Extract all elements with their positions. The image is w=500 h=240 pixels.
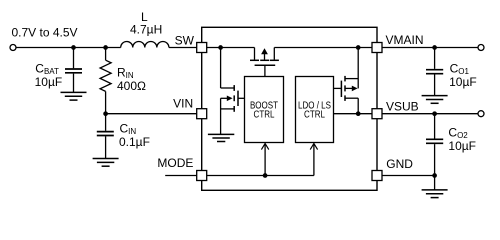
capacitor CO2 — [426, 139, 443, 143]
wire MODE stub — [165, 175, 197, 177]
pin VSUB — [372, 109, 382, 119]
svg-text:0.7V to 4.5V: 0.7V to 4.5V — [12, 26, 78, 40]
pin SW — [197, 43, 207, 53]
ground (GND/CO2) — [422, 190, 448, 198]
wire inductor to SW pin — [169, 47, 197, 49]
node VIN/CIN junction — [103, 111, 108, 116]
node R_IN top junction — [103, 45, 108, 50]
node M2 drain junction — [218, 45, 223, 50]
svg-text:CTRL: CTRL — [304, 109, 325, 120]
transistor M1 (rectifier, horizontal) — [250, 48, 279, 77]
svg-text:VMAIN: VMAIN — [386, 33, 424, 47]
ground (CBAT) — [61, 92, 87, 100]
wire VSUB to output — [382, 113, 478, 115]
svg-text:10µF: 10µF — [449, 75, 477, 89]
ground (CIN) — [93, 159, 119, 167]
svg-text:10µF: 10µF — [35, 75, 63, 89]
wire CO2 to GND row — [434, 144, 436, 190]
wire to CO2 — [434, 114, 436, 139]
ground (CO1) — [422, 96, 448, 104]
svg-text:4.7µH: 4.7µH — [130, 22, 162, 36]
svg-text:SW: SW — [175, 33, 195, 47]
pin GND — [372, 171, 382, 181]
node M3 drain junction — [356, 45, 361, 50]
node MODE junction — [263, 173, 268, 178]
svg-text:VIN: VIN — [173, 97, 193, 111]
wire to CO1 — [434, 48, 436, 69]
wire to CIN — [105, 114, 107, 131]
svg-text:RIN: RIN — [117, 65, 134, 80]
node M3 source junction — [356, 111, 361, 116]
wire CBAT to ground — [73, 74, 75, 93]
node C_BAT junction — [71, 45, 76, 50]
wire GND pin to ground — [382, 175, 435, 177]
wire arrow to BOOST — [264, 144, 266, 176]
svg-text:10µF: 10µF — [448, 139, 476, 153]
wire arrow to LDO — [313, 144, 315, 176]
wire LDO to VSUB — [334, 113, 373, 115]
inductor L1 — [121, 41, 169, 47]
wire VMAIN to output — [382, 47, 478, 49]
svg-text:CTRL: CTRL — [254, 109, 275, 120]
capacitor CO1 — [426, 70, 443, 74]
wire to C_BAT — [73, 48, 75, 69]
terminal VSUB — [478, 111, 484, 117]
wire to resistor — [105, 48, 107, 61]
svg-text:CIN: CIN — [120, 121, 137, 136]
svg-text:CO2: CO2 — [448, 125, 468, 140]
node GND junction — [432, 173, 437, 178]
wire input to inductor — [16, 47, 121, 49]
svg-text:CBAT: CBAT — [35, 62, 59, 77]
block BOOST CTRL — [245, 77, 284, 143]
svg-text:0.1µF: 0.1µF — [119, 135, 150, 149]
wire MODE to ctrl blocks — [207, 175, 314, 177]
wire CO1 to ground — [434, 75, 436, 96]
pin VIN — [197, 109, 207, 119]
svg-text:CO1: CO1 — [450, 61, 470, 76]
block LDO/LS CTRL — [296, 77, 334, 143]
pin MODE — [197, 171, 207, 181]
wire VIN row — [106, 113, 197, 115]
svg-text:400Ω: 400Ω — [117, 79, 146, 93]
node CO2 junction — [432, 111, 437, 116]
transistor M2 (low-side NMOS) — [221, 48, 245, 135]
svg-text:MODE: MODE — [157, 156, 193, 170]
IC body U1 — [202, 27, 377, 190]
wire SW to M1 — [207, 47, 255, 49]
input terminal — [10, 45, 16, 51]
capacitor CBAT — [65, 69, 82, 73]
svg-text:VSUB: VSUB — [386, 100, 419, 114]
resistor RIN — [100, 60, 111, 91]
ground (internal) — [208, 134, 234, 141]
pin VMAIN — [372, 43, 382, 53]
svg-text:GND: GND — [386, 157, 413, 171]
terminal VMAIN — [478, 45, 484, 51]
node CO1 junction — [432, 45, 437, 50]
wire M1 to VMAIN — [274, 47, 372, 49]
wire CIN to ground — [105, 136, 107, 158]
capacitor CIN — [97, 132, 114, 136]
transistor M3 (LDO/LS switch) — [334, 48, 359, 114]
